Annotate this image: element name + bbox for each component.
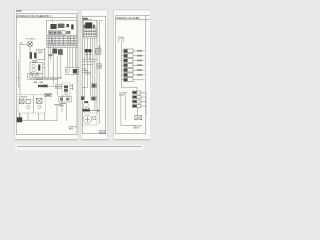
page B accumulator labels <box>85 54 91 56</box>
page A spool row2 box c <box>58 31 62 35</box>
page A title underline <box>16 17 77 19</box>
page A port label row <box>53 45 77 47</box>
page A pilot line down <box>19 47 21 95</box>
page A left return line <box>17 60 20 87</box>
page A center valve link line <box>38 85 62 87</box>
page C comb valve boxes <box>124 49 142 82</box>
page A solenoid stem <box>66 24 69 27</box>
comb valve row 4 <box>124 63 133 67</box>
page B check valve box <box>92 83 97 87</box>
page A travel valve circle <box>65 92 68 95</box>
page A spool mark row2 b <box>54 31 56 33</box>
page B small pump circle <box>84 103 89 108</box>
page B motor dashed box <box>82 113 97 125</box>
page A manifold ticks <box>49 36 74 45</box>
page C header bracket <box>119 39 124 43</box>
page A travel motor circle <box>66 69 69 72</box>
page A pump group dashed box right <box>33 95 45 113</box>
page A right row marks 2 <box>66 98 69 101</box>
page A rcv label box <box>45 93 52 96</box>
page A pump group internals 3 <box>36 98 42 103</box>
page A pump spool dark bar 1 <box>30 52 32 59</box>
page A spool mark row2 c <box>58 31 60 33</box>
page A horizontal bus lines <box>30 77 62 79</box>
svg-text:ASSY: ASSY <box>69 127 75 130</box>
page A front pump label smudge <box>19 96 27 98</box>
page A right row marks <box>60 98 63 101</box>
page A pilot shutoff valve box <box>28 42 32 46</box>
page A rcv lever label outline <box>55 85 61 88</box>
page A center valve dark bar <box>38 85 48 87</box>
page A travel valve dashed box <box>62 83 70 96</box>
page B strainer comb <box>83 108 89 110</box>
comb valve row 6 <box>124 73 133 77</box>
page A inner schematic frame <box>47 20 77 47</box>
svg-text:HYDRAULIC OIL SCHEMATIC 1: HYDRAULIC OIL SCHEMATIC 1 <box>17 14 52 18</box>
page A spool row2 box b <box>53 31 57 35</box>
comb row 4 label <box>137 64 142 66</box>
page A pump2 circle <box>38 105 41 108</box>
page B filter marks <box>91 97 95 100</box>
page B riser lines <box>85 20 97 113</box>
page C ladder to valve connector <box>137 108 139 116</box>
svg-text:MAIN PUMP: MAIN PUMP <box>30 74 39 77</box>
page B side small marks <box>93 116 96 119</box>
page A line to tank <box>62 96 66 121</box>
page A main riser line <box>44 48 46 78</box>
page A tank fitting dark mark <box>17 117 22 122</box>
next-row page strip bottom <box>16 145 144 150</box>
page A pump side tick <box>43 64 45 68</box>
page A travel motor dark blob <box>73 69 77 73</box>
page A travel motor box <box>66 68 79 75</box>
comb row 6 label <box>137 74 142 76</box>
page B accumulator ball 2 <box>88 49 92 53</box>
svg-text:PILOT VALVE: PILOT VALVE <box>26 38 36 41</box>
page B pump circle top <box>96 49 101 54</box>
page A main pump circle 1 <box>32 65 35 68</box>
page B sheet <box>81 10 108 140</box>
page A travel valve side ticks <box>70 84 73 90</box>
page C sol valve drop lines <box>121 87 137 125</box>
page B valve bank dark blob <box>85 22 92 28</box>
page B left fitting mark <box>81 96 84 100</box>
page A right small boxes row <box>59 96 71 102</box>
page C title underline <box>116 19 150 21</box>
page B pump box <box>95 48 101 54</box>
page B tank inner marks <box>85 116 90 122</box>
page A tank fitting stem <box>19 113 21 117</box>
page B mid bus lines <box>82 59 97 65</box>
page A reducing valve smudge cluster b <box>58 49 63 55</box>
page A sheet <box>15 10 79 140</box>
page B check mark upper <box>98 46 101 48</box>
page B border frame <box>82 16 106 133</box>
page C ladder out lines <box>141 93 146 116</box>
page A swing motor circle 1 <box>29 75 33 79</box>
page C bottom shadow <box>114 139 150 141</box>
page B title block box <box>100 130 106 133</box>
svg-text:RCV LV: RCV LV <box>56 86 62 88</box>
page A pump1 circle <box>27 105 30 108</box>
comb valve row 5 <box>124 68 133 72</box>
comb row 3 label <box>137 60 142 62</box>
page B valve bank grid row2 <box>84 32 96 34</box>
page A pump group internals 1 marks <box>20 99 24 103</box>
svg-text:BN-05: BN-05 <box>100 132 106 134</box>
page B left stub line <box>82 87 87 89</box>
comb valve row 1 <box>124 49 133 53</box>
page A border frame <box>16 14 77 135</box>
page B right margin line <box>99 20 103 124</box>
comb valve row 2 <box>124 54 133 58</box>
page A manifold grid lines <box>47 35 77 45</box>
page B valve bank side mark left <box>84 25 86 28</box>
comb valve row 3 <box>124 59 133 63</box>
page A solenoid block 2 <box>58 24 65 28</box>
page A right cluster label smudge <box>54 103 66 105</box>
page A bottom shadow <box>15 139 78 141</box>
page A gear pump body outline <box>37 49 45 59</box>
page B top label line <box>82 19 92 21</box>
page A line valve to pump <box>29 46 31 52</box>
page C lower valve box <box>135 116 142 120</box>
page A shutoff valve X mark <box>28 42 32 46</box>
page A swing motor box <box>28 73 42 79</box>
page A reducing valve smudge cluster <box>52 49 57 54</box>
page B tank circle <box>83 115 91 123</box>
page C ladder boxes <box>132 91 141 108</box>
page B suction line arrow <box>90 110 99 112</box>
page A spool mark row2 d <box>66 31 70 34</box>
page A main pump circle 2 <box>32 69 35 72</box>
page A pump group internals 1 <box>19 99 24 104</box>
svg-text:HYDRAULIC OIL SCHEM: HYDRAULIC OIL SCHEM <box>116 16 139 20</box>
ladder box 1 <box>132 91 141 94</box>
page B valve bank grid row3 <box>84 34 96 36</box>
page A pump spool dark bar 2 <box>34 53 36 59</box>
page A bottom bus <box>18 104 57 121</box>
page A pump port labels <box>34 81 43 83</box>
page A travel valve spool 1 <box>64 85 68 88</box>
page A relief valve bar <box>71 24 73 29</box>
page A rcv label box text <box>46 94 51 95</box>
page B pump arrows <box>97 50 100 53</box>
page C sheet <box>114 10 154 140</box>
next-row strip frame top line <box>17 145 142 147</box>
page B heat exchanger box <box>97 64 102 68</box>
ladder box 3 <box>132 100 141 103</box>
svg-text:CONTROL: CONTROL <box>118 37 125 39</box>
page A pump group internals 3 marks <box>37 99 42 103</box>
page A pump group internals 2 <box>26 99 30 103</box>
page A fold tick top-left <box>16 10 22 12</box>
page B pump cap dark <box>84 101 88 103</box>
page A dashed boundary line vertical <box>52 18 54 44</box>
page B top label smudge <box>83 18 88 20</box>
page B accumulator stems <box>86 53 89 59</box>
page C border frame <box>116 15 150 133</box>
page B link to title <box>97 110 100 112</box>
page C lower valve X <box>135 116 141 119</box>
page A solenoid block 1 <box>50 24 56 29</box>
page B valve bank outline <box>83 20 97 38</box>
page A vertical distribution lines <box>48 45 75 96</box>
page C main riser <box>121 41 137 88</box>
page B check valve marks <box>92 84 95 87</box>
page A swing motor circle 2 <box>35 75 39 79</box>
comb valve row 7 <box>124 78 133 82</box>
page B valve bank grid row1 <box>84 29 96 31</box>
page B strainer dark bar <box>83 109 90 111</box>
page A pump group dashed box left <box>18 95 33 113</box>
comb row 2 label <box>137 55 142 57</box>
page C bottom bus <box>121 125 135 127</box>
page B grid ticks <box>87 29 95 37</box>
page A motor arc caps <box>30 72 39 75</box>
page C comb feed lines <box>121 51 123 80</box>
page A travel valve spool 2 <box>64 89 68 92</box>
page A main pump box <box>30 63 43 74</box>
page B corner bus L lines <box>82 69 90 75</box>
ladder box 4 <box>132 105 141 108</box>
page A center valve arrow <box>44 84 47 87</box>
ladder box 2 <box>132 96 141 99</box>
comb row 1 label <box>137 50 142 52</box>
page A reducing valve smudge cluster c <box>49 54 53 56</box>
page B valve bank side mark right <box>93 25 95 28</box>
page A spool mark row2 a <box>49 31 51 33</box>
page B accumulator ball 1 <box>85 49 89 53</box>
page A pump regulator dark bar <box>38 65 40 71</box>
page B heat exchanger hatch <box>97 64 101 68</box>
page B filter dashed box <box>91 96 97 101</box>
page A pilot valve hose symbol <box>20 42 28 47</box>
page C comb out lines <box>133 51 145 80</box>
page A gear pump label smudges <box>38 51 43 53</box>
page A spool row2 box a <box>49 31 53 35</box>
comb row 5 label <box>137 69 142 71</box>
page A spool row2 box d <box>62 31 65 35</box>
page A pump port label smudges <box>32 61 37 63</box>
page B bottom shadow <box>81 139 108 141</box>
